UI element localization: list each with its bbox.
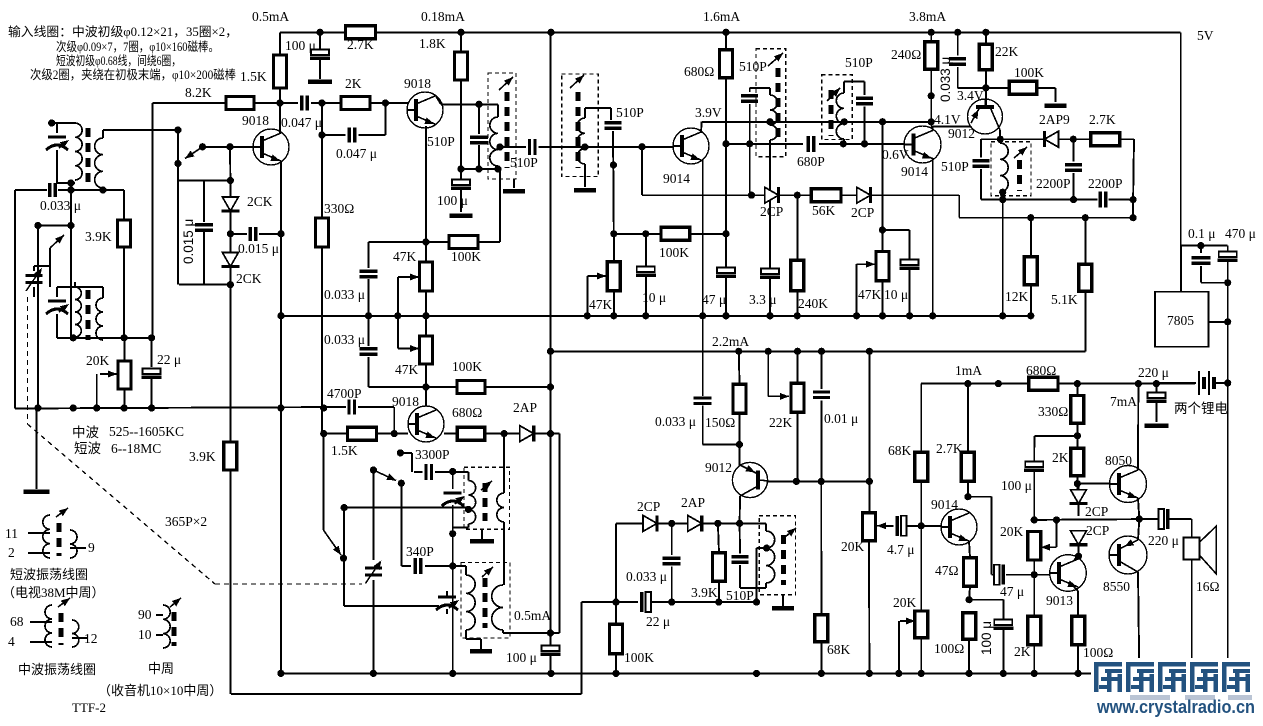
- node: [70, 334, 77, 341]
- wire: [864, 107, 866, 144]
- node: [67, 222, 74, 229]
- svg-text:47 μ: 47 μ: [1000, 584, 1024, 599]
- wire 4.1V line: [931, 126, 971, 128]
- wire legend pin9: [70, 547, 86, 549]
- svg-text:10 μ: 10 μ: [642, 290, 666, 305]
- capacitor 4700P: [349, 400, 355, 415]
- node: [638, 143, 645, 150]
- wire: [370, 102, 408, 104]
- transistor 9014 first arrow: [690, 153, 701, 163]
- node: [966, 596, 973, 603]
- wire: [453, 565, 466, 567]
- svg-text:100K: 100K: [1014, 65, 1044, 80]
- wire: [843, 81, 845, 93]
- dashed gang link vertical: [26, 297, 28, 424]
- inductor T2: [490, 117, 498, 166]
- resistor 2.7K bfo: [1091, 133, 1120, 146]
- svg-text:TTF-2: TTF-2: [72, 700, 106, 715]
- wire: [871, 194, 960, 196]
- wire: [779, 194, 812, 196]
- capacitor 0.1u: [1191, 258, 1210, 264]
- svg-text:4: 4: [8, 634, 15, 649]
- node: [1074, 432, 1081, 439]
- wire: [74, 282, 76, 287]
- svg-text:5V: 5V: [1197, 28, 1214, 43]
- wire left edge down: [14, 190, 16, 409]
- svg-text:525--1605KC: 525--1605KC: [109, 424, 184, 439]
- wire: [739, 445, 741, 467]
- pot 47K c wiper arrow: [587, 273, 606, 280]
- wire: [821, 400, 823, 481]
- diode 2CP bias upper: [1070, 490, 1088, 504]
- wire gang2 top: [372, 470, 374, 560]
- wire: [584, 108, 586, 118]
- wire: [57, 182, 75, 184]
- node: [422, 312, 429, 319]
- node: [422, 383, 429, 390]
- svg-text:100K: 100K: [451, 249, 481, 264]
- wire: [614, 233, 661, 235]
- wire T4 bottom down: [769, 140, 771, 195]
- wire: [700, 122, 703, 133]
- node: [1197, 242, 1204, 249]
- node: [866, 348, 873, 355]
- wire: [534, 433, 560, 435]
- svg-text:20K: 20K: [1000, 524, 1024, 539]
- svg-text:6--18MC: 6--18MC: [111, 441, 161, 456]
- node: [370, 466, 377, 473]
- wire: [796, 291, 798, 316]
- node: [67, 179, 74, 186]
- svg-text:680Ω: 680Ω: [684, 64, 714, 79]
- svg-text:1mA: 1mA: [955, 363, 982, 378]
- wire: [1155, 403, 1157, 422]
- trimmer arrow legend SW: [56, 505, 70, 517]
- svg-text:0.015 μ: 0.015 μ: [238, 241, 279, 256]
- node bus B1: [794, 312, 801, 319]
- wire: [324, 433, 348, 435]
- shield box T6: [991, 142, 1031, 196]
- node ant1 top: [48, 119, 55, 126]
- wire: [369, 241, 450, 243]
- node: [736, 520, 743, 527]
- svg-text:3.9V: 3.9V: [695, 105, 722, 120]
- wire: [52, 122, 75, 124]
- wire 7805 in: [1180, 246, 1182, 292]
- wire: [1078, 545, 1080, 556]
- wire 1mA rail: [921, 383, 1156, 385]
- wire: [752, 194, 766, 196]
- ground T7: [470, 539, 494, 544]
- transistor 8050 arrow: [1127, 491, 1138, 501]
- svg-text:510P: 510P: [941, 159, 969, 174]
- node base 9018-1 top: [276, 99, 283, 106]
- ground T8: [470, 649, 492, 654]
- svg-text:0.1 μ: 0.1 μ: [1188, 226, 1216, 241]
- trimmer arrow T6: [1014, 144, 1029, 158]
- wire: [124, 338, 126, 361]
- svg-text:0.18mA: 0.18mA: [421, 9, 465, 24]
- svg-text:2CK: 2CK: [247, 194, 273, 209]
- wire: [882, 281, 884, 316]
- svg-text:次级2圈，夹绕在初极末端，φ10×200磁棒: 次级2圈，夹绕在初极末端，φ10×200磁棒: [30, 68, 236, 82]
- wire: [478, 241, 500, 243]
- node rail 100u: [316, 29, 323, 36]
- svg-text:47K: 47K: [395, 362, 419, 377]
- wire: [702, 522, 766, 524]
- wire: [461, 168, 498, 170]
- wire: [1037, 87, 1056, 89]
- svg-text:22 μ: 22 μ: [157, 352, 181, 367]
- core T8: [483, 578, 488, 628]
- node: [746, 140, 753, 147]
- node: [320, 430, 327, 437]
- wire: [1078, 530, 1080, 531]
- node: [67, 186, 74, 193]
- svg-text:短波: 短波: [74, 441, 101, 456]
- svg-text:10 μ: 10 μ: [884, 287, 908, 302]
- svg-text:4.1V: 4.1V: [934, 112, 961, 127]
- node: [226, 143, 233, 150]
- svg-text:中周: 中周: [148, 661, 174, 676]
- svg-text:2200P: 2200P: [1088, 176, 1123, 191]
- wire: [1077, 591, 1079, 616]
- wire: [967, 481, 969, 496]
- wire collector 9018-3: [425, 387, 427, 406]
- svg-text:9018: 9018: [392, 394, 419, 409]
- svg-text:2: 2: [8, 545, 15, 560]
- node rail 680R: [722, 29, 729, 36]
- variable cap 365P gang2: [365, 568, 382, 575]
- resistor 100K conv: [449, 236, 478, 249]
- resistor 330R first: [316, 218, 329, 247]
- core T5: [829, 90, 834, 136]
- svg-text:100K: 100K: [624, 650, 654, 665]
- wire: [151, 338, 153, 367]
- diode 2AP9: [1045, 131, 1059, 147]
- resistor 22K pot: [791, 383, 804, 412]
- svg-text:0.033 μ: 0.033 μ: [324, 332, 365, 347]
- svg-text:47Ω: 47Ω: [935, 563, 959, 578]
- variable cap 365P gang1: [26, 276, 43, 283]
- trimmer arrow T2: [499, 74, 515, 90]
- node bus B1: [610, 312, 617, 319]
- wire: [452, 472, 454, 490]
- wire 8550 emitter: [1138, 519, 1139, 540]
- wire: [322, 134, 346, 136]
- wire: [718, 523, 719, 553]
- wire: [203, 181, 205, 223]
- wire: [990, 497, 992, 575]
- wire: [319, 32, 321, 49]
- wire: [229, 147, 231, 181]
- node: [457, 165, 464, 172]
- wire: [485, 433, 521, 435]
- wire: [767, 351, 769, 396]
- wire: [1058, 383, 1195, 385]
- svg-text:100 μ: 100 μ: [506, 650, 537, 665]
- node: [121, 334, 128, 341]
- node: [794, 348, 801, 355]
- node bus B1: [584, 312, 591, 319]
- svg-text:330Ω: 330Ω: [1038, 404, 1068, 419]
- wire: [740, 587, 766, 589]
- wire: [981, 138, 1000, 140]
- wire: [460, 190, 462, 212]
- capacitor 100u osc: [541, 646, 561, 655]
- resistor 3.9K input: [118, 220, 131, 247]
- wire top rail left: [280, 31, 346, 33]
- trimmer arrow T3: [570, 72, 586, 88]
- capacitor 4.7u: [897, 516, 906, 536]
- wire T7 sec to T8: [503, 522, 505, 585]
- wire: [56, 287, 58, 297]
- svg-text:0.6V: 0.6V: [882, 147, 909, 162]
- inductor T8 primary: [466, 575, 475, 630]
- wire: [467, 524, 469, 527]
- node rail 0.033u: [954, 29, 961, 36]
- capacitor 220u b: [1159, 509, 1168, 529]
- wire: [1055, 88, 1057, 102]
- node: [340, 555, 347, 562]
- core legend MW: [59, 613, 64, 645]
- wire: [703, 444, 740, 446]
- svg-text:2AP: 2AP: [681, 495, 705, 510]
- inductor T4: [770, 95, 778, 140]
- svg-text:2200P: 2200P: [1036, 176, 1071, 191]
- wire: [446, 591, 448, 596]
- node: [547, 430, 554, 437]
- wire: [581, 602, 583, 694]
- node: [227, 230, 234, 237]
- svg-text:2CK: 2CK: [236, 271, 262, 286]
- wire: [985, 32, 987, 44]
- wire coil bottoms: [57, 337, 152, 339]
- wire: [999, 130, 1001, 139]
- ground T2: [503, 189, 525, 194]
- transistor 9012 second arrow: [745, 465, 756, 475]
- inductor legend MW right: [72, 620, 79, 647]
- wire: [725, 278, 727, 316]
- svg-text:22K: 22K: [769, 415, 793, 430]
- svg-text:10: 10: [138, 627, 152, 642]
- svg-text:9012: 9012: [948, 126, 975, 141]
- transistor 9014 third arrow: [958, 534, 969, 544]
- resistor 20K volume pot: [863, 513, 876, 541]
- wire: [615, 523, 617, 602]
- wire: [1132, 200, 1134, 218]
- wire: [33, 287, 35, 297]
- svg-text:11: 11: [5, 526, 18, 541]
- node: [1053, 516, 1060, 523]
- core T2: [505, 92, 510, 168]
- trimmer arrow T7: [481, 478, 494, 490]
- node bottom bus: [753, 670, 760, 677]
- svg-text:47K: 47K: [858, 287, 882, 302]
- node bottom bus: [895, 670, 902, 677]
- wire: [968, 586, 971, 599]
- wire: [739, 413, 741, 444]
- wire to base 9014-1: [585, 146, 673, 148]
- inductor legend SW left: [43, 515, 50, 558]
- wire speaker line: [1034, 518, 1159, 521]
- wire: [645, 234, 647, 266]
- node: [1224, 318, 1231, 325]
- wire base 9018-1: [203, 146, 254, 148]
- node: [501, 430, 508, 437]
- capacitor 22u det: [642, 592, 651, 612]
- node AGC bus: [148, 404, 155, 411]
- wire to T8 trimmer: [344, 605, 433, 607]
- switch S2 wiper arrow: [50, 232, 66, 248]
- wire: [102, 290, 104, 298]
- svg-text:47 μ: 47 μ: [702, 292, 726, 307]
- wire det: [616, 522, 644, 524]
- trimmer arrow T4: [768, 50, 785, 66]
- node: [547, 629, 554, 636]
- resistor 100R a: [963, 613, 976, 639]
- node rail 22K: [982, 29, 989, 36]
- node T3 tap: [581, 143, 588, 150]
- wire: [584, 177, 586, 188]
- wire AGC 195: [642, 194, 752, 196]
- svg-text:510P: 510P: [845, 55, 873, 70]
- wire 8550 collector down: [1138, 572, 1139, 673]
- node: [1027, 214, 1034, 221]
- wire: [500, 146, 526, 148]
- wire to 68K b: [820, 481, 822, 614]
- node: [1082, 214, 1089, 221]
- capacitor 0.047u second: [349, 128, 355, 143]
- wire: [920, 481, 922, 611]
- node: [318, 99, 325, 106]
- node: [382, 99, 389, 106]
- transistor 8050: [1110, 466, 1147, 503]
- resistor 20K pot e: [915, 611, 928, 638]
- node: [1031, 571, 1038, 578]
- svg-text:3.3 μ: 3.3 μ: [749, 292, 777, 307]
- transistor 9012 first arrow: [971, 108, 981, 119]
- capacitor 470u: [1218, 252, 1238, 261]
- ground T3: [574, 188, 596, 193]
- svg-text:0.033 μ: 0.033 μ: [626, 569, 667, 584]
- wire 680P line left: [726, 143, 803, 145]
- svg-text:510P: 510P: [739, 59, 767, 74]
- capacitor 510P c: [605, 123, 622, 129]
- wire main bus B1: [281, 315, 1031, 317]
- svg-text:0.033 μ: 0.033 μ: [40, 198, 81, 213]
- wire: [909, 270, 911, 316]
- wire legend pin12: [72, 637, 88, 639]
- node: [1070, 136, 1077, 143]
- resistor 68K b: [815, 615, 828, 642]
- node AGC bus: [34, 404, 41, 411]
- capacitor 3.3u: [760, 269, 780, 278]
- svg-text:12K: 12K: [1005, 289, 1029, 304]
- node: [449, 562, 456, 569]
- transistor 9012 first: [968, 99, 1003, 134]
- svg-text:2CP: 2CP: [637, 499, 660, 514]
- wire: [920, 384, 922, 453]
- capacitor 0.033u b2: [360, 349, 378, 355]
- svg-text:9018: 9018: [404, 76, 431, 91]
- node bus B1: [999, 312, 1006, 319]
- trimmer cap T7: [442, 493, 467, 506]
- wire: [56, 123, 58, 133]
- wire trim7 down: [452, 505, 454, 673]
- node bus B1: [906, 312, 913, 319]
- wire: [446, 609, 448, 614]
- transistor 9013: [1050, 555, 1087, 592]
- wire x559 down: [559, 434, 561, 633]
- capacitor 0.015u vertical: [195, 225, 213, 231]
- wire: [882, 122, 884, 252]
- node: [668, 599, 675, 606]
- svg-text:240Ω: 240Ω: [891, 47, 921, 62]
- node: [765, 348, 772, 355]
- wire: [368, 242, 370, 268]
- node: [422, 238, 429, 245]
- wire: [1214, 382, 1228, 384]
- core T4: [775, 68, 780, 140]
- transistor 9014 first: [673, 128, 709, 164]
- node: [1135, 380, 1142, 387]
- wire: [610, 108, 612, 120]
- node: [1070, 196, 1077, 203]
- resistor 2K: [341, 97, 370, 110]
- capacitor 510P f: [973, 161, 990, 167]
- wire vol line: [582, 601, 638, 603]
- wire: [586, 276, 588, 316]
- wire to main ground: [36, 409, 38, 490]
- node: [277, 230, 284, 237]
- wire: [539, 146, 585, 148]
- core T6: [1017, 160, 1022, 191]
- node bus B1: [929, 312, 936, 319]
- wire: [885, 525, 894, 527]
- wire: [425, 364, 427, 387]
- wire: [958, 195, 960, 218]
- node: [610, 230, 617, 237]
- resistor 2.7K series rail: [346, 26, 376, 39]
- svg-text:2CP: 2CP: [851, 205, 874, 220]
- wire: [433, 605, 439, 607]
- wire: [230, 233, 247, 235]
- trimmer arrow T5: [827, 86, 842, 101]
- node: [1130, 214, 1137, 221]
- node: [449, 530, 456, 537]
- node: [34, 222, 41, 229]
- inductor antenna SW primary: [75, 287, 81, 337]
- node bottom bus: [547, 670, 554, 677]
- resistor 47R: [964, 558, 977, 587]
- node: [736, 441, 743, 448]
- wire to AGC bus: [37, 226, 39, 409]
- wire: [411, 453, 413, 472]
- node: [422, 238, 429, 245]
- wire: [739, 523, 741, 553]
- capacitor 100u rail: [310, 50, 330, 59]
- wire: [311, 102, 341, 104]
- diode 2CP det: [643, 515, 657, 531]
- transistor 9018 third: [408, 406, 444, 442]
- transistor 9018 second: [407, 92, 443, 128]
- wire 20K d wiper drop: [1056, 519, 1058, 547]
- wire: [757, 547, 767, 549]
- node bus B1: [1027, 312, 1034, 319]
- wire switch S1 down: [177, 164, 179, 285]
- wire: [397, 316, 399, 349]
